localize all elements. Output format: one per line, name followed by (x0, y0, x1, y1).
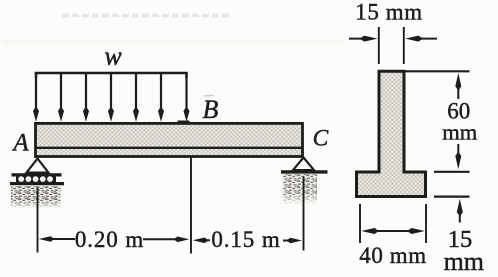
60 mm: up arrow (455, 73, 461, 99)
T cross-section shape (357, 71, 426, 196)
svg-text:0.15 m: 0.15 m (211, 227, 280, 252)
svg-text:15 mm: 15 mm (355, 0, 423, 25)
support A: roller 3 (33, 176, 39, 182)
svg-text:B: B (203, 95, 219, 124)
support C: ground hatch (283, 174, 318, 205)
40 mm: left extension line (359, 204, 361, 243)
40 mm: dimension line (373, 230, 414, 232)
support A: roller band (16, 176, 56, 183)
beam body (side view) (36, 123, 303, 156)
15 mm top: right arrow (405, 36, 437, 42)
15 mm top: right extension line (403, 27, 405, 64)
40 mm: right extension line (425, 204, 427, 243)
load arrow 5 (133, 73, 139, 122)
support A: roller 4 (40, 176, 46, 182)
dimension extension line at C (303, 177, 305, 251)
distributed load top line (36, 73, 187, 78)
svg-text:mm: mm (444, 247, 484, 276)
support A: roller 5 (47, 176, 53, 182)
svg-text:mm: mm (442, 119, 478, 144)
support A: bottom plate line (10, 182, 64, 185)
scan artifact: faint band (2, 40, 344, 44)
scan artifact: faint smudge line top (62, 14, 232, 17)
load arrow 7 (184, 73, 190, 122)
tick at point B on beam top (178, 120, 190, 122)
support A: triangle (27, 159, 49, 173)
load arrow 3 (83, 73, 89, 122)
60 mm: extension line at stem top (406, 70, 470, 72)
dimension 0.20 m: right arrow (143, 237, 189, 243)
load arrow 6 (158, 73, 164, 122)
load arrow 2 (58, 73, 64, 122)
svg-text:A: A (11, 130, 29, 157)
60 mm: down arrow (455, 144, 461, 169)
15 mm top: left extension line (378, 27, 380, 64)
dimension extension line at B (middle) (190, 156, 192, 254)
faint macron over B (scan mark) (204, 94, 214, 97)
beam flange line (horizontal line near beam bottom) (35, 147, 303, 149)
dimension extension line at A (37, 188, 39, 253)
40 mm: left arrow (361, 228, 379, 234)
dimension 0.20 m: left arrow (39, 236, 75, 242)
svg-text:C: C (313, 126, 329, 152)
support A: ground hatch (11, 186, 61, 209)
extension line at flange top (434, 171, 470, 173)
dimension 0.15 m: right arrow (283, 238, 302, 244)
support A: roller 1 (18, 176, 24, 182)
extension line at flange bottom (434, 196, 470, 198)
load arrow 1 (33, 73, 39, 122)
15 mm bottom: up arrow (457, 199, 463, 223)
svg-text:40 mm: 40 mm (359, 243, 427, 268)
40 mm: right arrow (407, 228, 425, 234)
support C: triangle (293, 158, 314, 171)
15 mm top: left arrow (349, 36, 378, 42)
support C: ground line (281, 170, 328, 173)
support A: top plate line (12, 173, 62, 176)
support A: roller 2 (26, 176, 32, 182)
load arrow 4 (108, 73, 114, 122)
dimension 0.15 m: left arrow (193, 238, 210, 244)
svg-text:w: w (104, 42, 122, 71)
svg-text:0.20 m: 0.20 m (75, 227, 144, 252)
